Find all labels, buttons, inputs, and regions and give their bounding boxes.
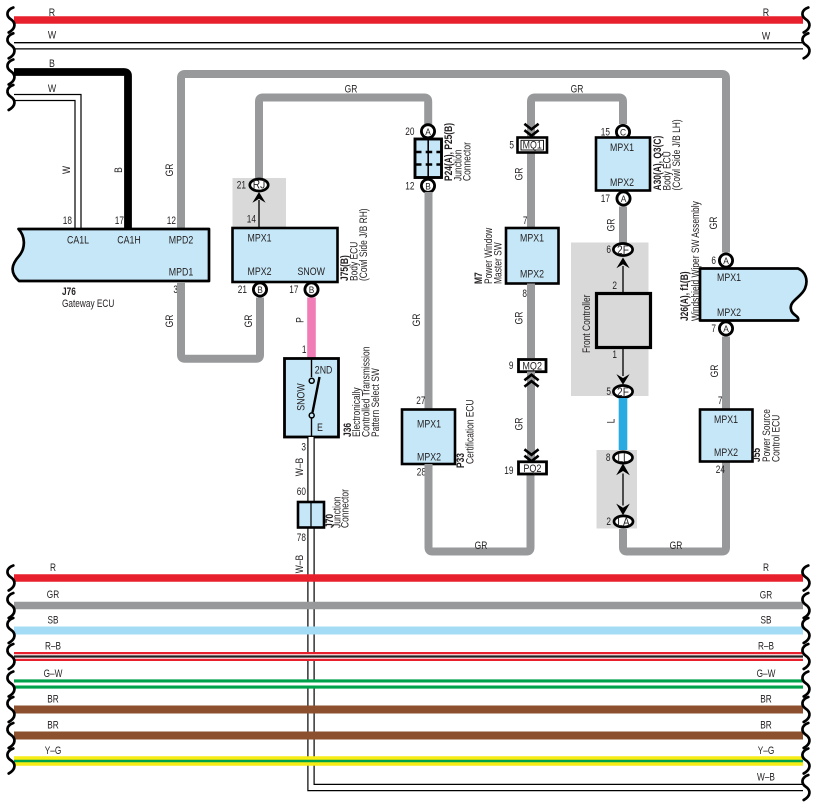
svg-text:MPX1: MPX1 xyxy=(714,414,738,426)
svg-text:MPX2: MPX2 xyxy=(417,452,441,464)
svg-text:MQ2: MQ2 xyxy=(522,361,542,373)
svg-text:21: 21 xyxy=(238,284,247,296)
ECU J75(B) Body ECU (Cowl Side J/B RH) xyxy=(233,208,371,282)
svg-text:GR: GR xyxy=(708,216,720,229)
svg-text:MPX2: MPX2 xyxy=(717,307,741,319)
svg-text:R: R xyxy=(50,562,56,574)
ECU P33 Certification ECU xyxy=(402,399,477,478)
wire GR bus xyxy=(7,589,809,618)
svg-text:W–B: W–B xyxy=(294,458,306,476)
svg-text:BR: BR xyxy=(47,694,59,706)
svg-text:8: 8 xyxy=(522,288,527,300)
switch J36 Electronically Controlled Transmission Pattern Select SW xyxy=(285,347,383,437)
svg-text:BR: BR xyxy=(760,694,772,706)
svg-text:18: 18 xyxy=(63,215,72,227)
junction connector J70 xyxy=(294,489,352,573)
shaded area LL/LA xyxy=(597,450,638,529)
svg-text:RJ: RJ xyxy=(253,178,266,192)
connector B pin 12 xyxy=(405,179,434,192)
svg-text:MPX2: MPX2 xyxy=(248,266,272,278)
svg-text:PQ2: PQ2 xyxy=(523,463,541,475)
svg-text:MPX2: MPX2 xyxy=(520,269,544,281)
switch J26(A), f1(B) Windshield Wiper SW Assembly xyxy=(679,201,806,321)
svg-text:G–W: G–W xyxy=(757,668,776,680)
svg-text:R–B: R–B xyxy=(45,641,61,653)
svg-text:17: 17 xyxy=(601,193,610,205)
connector PQ2 pin 19 xyxy=(504,462,546,477)
wire Y-G bus xyxy=(7,745,809,774)
svg-text:A: A xyxy=(425,126,431,137)
wire GR J26 pin7 to J55 pin 7 xyxy=(709,337,726,410)
svg-text:GR: GR xyxy=(475,540,488,552)
chevron into MQ1 xyxy=(524,124,538,136)
wire W-B from J36 pin3 through J70 to bottom W-B bus xyxy=(294,437,803,788)
svg-text:G–W: G–W xyxy=(44,668,63,680)
wire W-B bus label and squiggle xyxy=(757,772,809,801)
svg-text:BR: BR xyxy=(760,720,772,732)
svg-text:GR: GR xyxy=(514,417,526,430)
wire L (blue) 2F to LL xyxy=(606,398,624,453)
svg-text:Control ECU: Control ECU xyxy=(771,415,783,462)
svg-text:SB: SB xyxy=(761,615,772,627)
svg-text:6: 6 xyxy=(606,244,611,256)
svg-text:MPX1: MPX1 xyxy=(417,419,441,431)
wire GR outer loop: J76 MPD2 to J26 pin 6 xyxy=(164,74,726,253)
svg-text:W: W xyxy=(48,30,57,42)
svg-text:MPD1: MPD1 xyxy=(169,267,194,279)
wire G-W bus xyxy=(7,668,809,697)
svg-text:2F: 2F xyxy=(617,243,629,257)
svg-text:(Cowl Side J/B RH): (Cowl Side J/B RH) xyxy=(358,208,370,281)
svg-text:GR: GR xyxy=(514,167,526,180)
connector A pin 17 xyxy=(601,192,630,205)
svg-text:24: 24 xyxy=(716,464,725,476)
connector C pin 15 xyxy=(601,125,630,138)
svg-text:7: 7 xyxy=(718,395,723,407)
ECU A30(A), Q3(C) Body ECU (Cowl Side J/B LH) xyxy=(596,119,683,190)
connector LA pin 2 xyxy=(606,515,633,529)
connector B pin 21 xyxy=(238,283,267,296)
svg-text:MPX1: MPX1 xyxy=(248,233,272,245)
svg-text:C: C xyxy=(620,127,626,138)
svg-text:Connector: Connector xyxy=(340,489,352,528)
junction connector P24(A), P25(B) xyxy=(415,123,474,181)
svg-text:E: E xyxy=(317,422,323,434)
svg-text:5: 5 xyxy=(606,386,611,398)
svg-text:W: W xyxy=(762,31,771,43)
svg-text:CA1H: CA1H xyxy=(117,235,141,247)
ECU M7 Power Window Master SW xyxy=(473,228,559,300)
wire GR bottom U right: LA to J55 pin 24 xyxy=(623,462,726,553)
connector 2F pin 5 xyxy=(606,385,632,399)
svg-text:BR: BR xyxy=(47,720,59,732)
ECU J55 Power Source Control ECU xyxy=(700,409,783,476)
svg-text:60: 60 xyxy=(297,486,306,498)
svg-text:Windshield Wiper SW Assembly: Windshield Wiper SW Assembly xyxy=(690,201,702,321)
svg-text:Master SW: Master SW xyxy=(493,242,505,284)
svg-text:GR: GR xyxy=(760,590,772,602)
svg-text:W–B: W–B xyxy=(757,772,775,784)
svg-text:B: B xyxy=(257,284,263,295)
svg-text:27: 27 xyxy=(416,395,425,407)
front controller box xyxy=(581,294,651,354)
svg-text:17: 17 xyxy=(115,215,124,227)
svg-text:SNOW: SNOW xyxy=(296,383,308,411)
connector RJ pin 21 xyxy=(237,178,268,192)
wire front controller pin2 to 2F xyxy=(622,266,624,294)
svg-text:1: 1 xyxy=(302,344,307,356)
chevron out of MQ2 xyxy=(524,375,538,387)
wire GR inner loop left: RJ to junction connector A xyxy=(259,84,428,180)
svg-text:J76: J76 xyxy=(62,286,76,298)
svg-text:19: 19 xyxy=(504,465,513,477)
svg-text:R: R xyxy=(49,7,55,19)
connector LL pin 8 xyxy=(606,451,633,465)
svg-text:GR: GR xyxy=(514,311,526,324)
wire pin14 to RJ xyxy=(258,200,260,228)
svg-text:A: A xyxy=(621,193,627,204)
svg-text:W: W xyxy=(61,166,73,174)
svg-text:CA1L: CA1L xyxy=(67,235,89,247)
wire GR MQ1 to M7 pin 7 xyxy=(514,152,532,228)
connector B pin 17 xyxy=(289,283,318,296)
svg-text:3: 3 xyxy=(301,442,306,454)
svg-text:Pattern Select SW: Pattern Select SW xyxy=(370,368,382,437)
wire GR bottom U: P33 pin 28 to PQ2 xyxy=(429,464,531,552)
connector A pin 7 xyxy=(711,322,732,335)
arrow up into 2F xyxy=(616,258,629,269)
wire P (pink) J75 SNOW to J36 pin 1 xyxy=(295,298,312,359)
wire BR bus 2 xyxy=(7,720,809,749)
svg-text:R: R xyxy=(763,7,769,19)
shaded area above J75 xyxy=(233,178,287,228)
svg-text:B: B xyxy=(49,58,55,70)
svg-text:Gateway ECU: Gateway ECU xyxy=(62,298,114,310)
svg-text:A: A xyxy=(723,255,729,266)
svg-text:Y–G: Y–G xyxy=(45,745,62,757)
svg-text:L: L xyxy=(606,419,618,424)
svg-text:(Cowl Side J/B LH): (Cowl Side J/B LH) xyxy=(671,119,683,190)
svg-text:GR: GR xyxy=(606,218,618,231)
svg-text:MPX1: MPX1 xyxy=(717,272,741,284)
svg-text:Y–G: Y–G xyxy=(758,745,775,757)
svg-text:2F: 2F xyxy=(617,385,629,399)
wire GR MQ2 to PQ2 xyxy=(514,372,532,463)
svg-text:GR: GR xyxy=(345,84,358,96)
chevron into PQ2 xyxy=(524,449,538,461)
wire GR A30 pin 17 to front controller 2F xyxy=(606,207,624,244)
svg-text:2: 2 xyxy=(612,280,617,292)
connector MQ2 pin 9 xyxy=(509,360,546,373)
svg-text:9: 9 xyxy=(509,360,514,372)
wire R bus (bottom) xyxy=(7,562,809,591)
svg-text:5: 5 xyxy=(509,140,514,152)
wire B bus to J76 CA1H xyxy=(7,58,128,228)
svg-text:MPD2: MPD2 xyxy=(169,235,194,247)
svg-text:7: 7 xyxy=(523,215,528,227)
svg-text:MPX2: MPX2 xyxy=(610,177,634,189)
connector A pin 6 xyxy=(711,254,732,267)
wire GR lower-left U: J76 MPD1 pin3 to J75 MPX2 pin21 xyxy=(164,282,260,359)
svg-text:GR: GR xyxy=(164,314,176,327)
arrow up into RJ xyxy=(252,192,265,203)
svg-text:12: 12 xyxy=(167,215,176,227)
svg-text:W–B: W–B xyxy=(294,555,306,573)
shaded area front controller xyxy=(571,243,649,397)
double arrow between LL and LA xyxy=(616,464,630,516)
svg-text:LL: LL xyxy=(617,451,629,465)
svg-text:20: 20 xyxy=(405,126,414,138)
svg-text:LA: LA xyxy=(617,515,630,529)
svg-text:R: R xyxy=(763,562,769,574)
svg-text:Certification ECU: Certification ECU xyxy=(465,399,477,464)
svg-text:GR: GR xyxy=(670,540,683,552)
svg-text:Front Controller: Front Controller xyxy=(581,294,593,353)
svg-text:B: B xyxy=(309,284,315,295)
svg-text:GR: GR xyxy=(571,84,584,96)
svg-text:MPX2: MPX2 xyxy=(714,447,738,459)
svg-text:GR: GR xyxy=(164,163,176,176)
svg-text:W: W xyxy=(48,83,57,95)
svg-text:SB: SB xyxy=(48,615,59,627)
wire GR junction connector B to P33 pin 27 xyxy=(411,192,429,410)
connector MQ1 pin 5 xyxy=(509,138,547,153)
svg-text:SNOW: SNOW xyxy=(298,266,326,278)
svg-text:MQ1: MQ1 xyxy=(523,140,542,152)
svg-text:8: 8 xyxy=(606,452,611,464)
wire BR bus 1 xyxy=(7,694,809,723)
svg-text:MPX1: MPX1 xyxy=(610,142,634,154)
svg-text:B: B xyxy=(113,167,125,173)
svg-text:R–B: R–B xyxy=(758,641,774,653)
wire SB bus xyxy=(7,615,809,644)
svg-text:GR: GR xyxy=(411,313,423,326)
svg-text:P: P xyxy=(295,317,307,323)
wire R-B bus xyxy=(7,641,809,670)
svg-text:14: 14 xyxy=(247,214,256,226)
svg-text:12: 12 xyxy=(405,180,414,192)
wire GR inner loop right: MQ1 to A30 pin 15 xyxy=(531,84,623,138)
svg-text:MPX1: MPX1 xyxy=(520,233,544,245)
svg-text:B: B xyxy=(425,180,431,191)
connector 2F pin 6 xyxy=(606,243,632,257)
ECU J76 Gateway ECU xyxy=(13,215,209,310)
svg-text:21: 21 xyxy=(237,180,246,192)
svg-text:2ND: 2ND xyxy=(315,364,333,376)
svg-text:6: 6 xyxy=(711,255,716,267)
svg-text:GR: GR xyxy=(243,314,255,327)
wire front controller pin1 to 2F below, arrow down xyxy=(622,348,624,377)
svg-text:A: A xyxy=(723,323,729,334)
wire W bus 2 to J76 CA1L xyxy=(7,83,78,228)
svg-text:1: 1 xyxy=(612,349,617,361)
svg-text:7: 7 xyxy=(711,323,716,335)
svg-text:Connector: Connector xyxy=(462,142,474,181)
svg-text:78: 78 xyxy=(297,532,306,544)
svg-text:GR: GR xyxy=(709,364,721,377)
svg-text:17: 17 xyxy=(289,284,298,296)
svg-text:2: 2 xyxy=(606,516,611,528)
connector A pin 20 xyxy=(405,125,434,138)
wire GR M7 pin 8 to MQ2 xyxy=(514,284,532,359)
svg-text:GR: GR xyxy=(47,589,59,601)
wire R bus (top) xyxy=(7,7,809,33)
wire W bus (top) xyxy=(7,30,809,59)
